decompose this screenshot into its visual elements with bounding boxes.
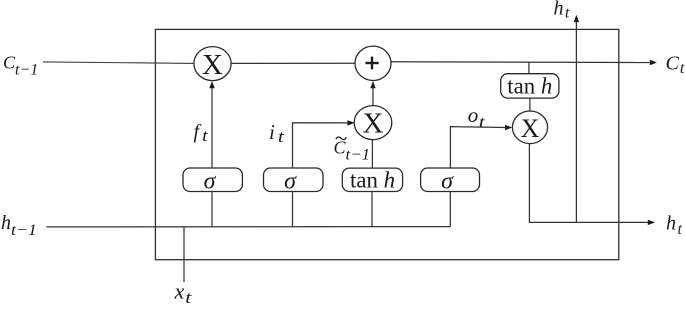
wire tanh1 down to X3	[529, 98, 531, 111]
wire x t input up to h(t-1) line	[183, 227, 185, 282]
multiply gate X3 circle	[512, 111, 547, 144]
svg-text:X: X	[363, 107, 384, 139]
add gate circle	[355, 46, 391, 80]
tanh1 box	[501, 74, 559, 98]
wire o: sigma3 up and right into X3 with arrowhead	[450, 127, 505, 168]
sigma1 box	[183, 168, 242, 192]
LSTM cell boundary box	[155, 29, 618, 259]
svg-text:tan h: tan h	[507, 73, 552, 98]
sigma2 box	[264, 168, 324, 192]
wire sigma3 down to h(t-1) line	[449, 192, 451, 227]
wire X1 to plus gate	[231, 62, 355, 64]
multiply gate X1 circle	[194, 47, 231, 81]
wire f: sigma1 up into X1 with arrowhead	[211, 88, 213, 169]
wire C(t-1) into X1 gate	[43, 62, 194, 64]
tilde accent over C	[336, 137, 347, 140]
wire tanh2 down to h(t-1) line	[371, 192, 373, 228]
tanh2 box	[342, 168, 402, 191]
svg-text:σ: σ	[284, 168, 297, 194]
wire sigma1 down to h(t-1) line	[211, 192, 213, 228]
wire C line down into tanh1	[528, 62, 530, 73]
multiply gate X2 circle	[354, 106, 392, 140]
wire plus gate to Ct output with arrowhead	[391, 61, 651, 64]
wire tanh2 up to X2	[371, 140, 373, 168]
svg-text:σ: σ	[204, 168, 217, 194]
wire h(t-1) input line	[47, 226, 451, 228]
svg-text:σ: σ	[441, 168, 454, 194]
wire sigma2 down to h(t-1) line	[292, 192, 294, 228]
wire X3 down then right to ht output with arrowhead	[529, 144, 648, 223]
svg-text:X: X	[202, 49, 223, 81]
sigma3 box	[421, 168, 480, 192]
svg-text:X: X	[521, 114, 540, 143]
wire ht branch up through box with arrowhead	[575, 22, 577, 223]
svg-text:tan h: tan h	[350, 167, 395, 192]
wire i: sigma2 up and right into X2 with arrowhead	[293, 123, 349, 168]
plus sign	[365, 62, 378, 64]
wire X2 up into plus gate with arrowhead	[372, 88, 374, 106]
